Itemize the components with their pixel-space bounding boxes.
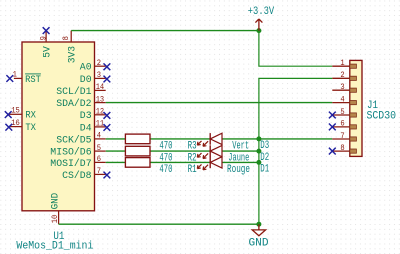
ground symbol GND	[249, 224, 269, 249]
svg-text:Rouge: Rouge	[227, 164, 250, 176]
J1 pin 4	[332, 94, 356, 104]
J1 pin 6	[332, 119, 356, 129]
resistor R3 470	[125, 134, 196, 152]
no-connect X on J1 pin 8	[329, 148, 336, 155]
no-connect X on J1 pin 5	[329, 112, 336, 119]
svg-text:R1: R1	[188, 164, 197, 176]
svg-text:10: 10	[50, 215, 60, 224]
svg-text:3V3: 3V3	[68, 46, 79, 63]
wire: U1 GND pin 10 to GND junction	[59, 223, 259, 225]
svg-text:+3.3V: +3.3V	[248, 6, 275, 18]
U1 pin 4 (SCK/D5)	[56, 131, 106, 147]
LED D1 (Rouge)	[197, 157, 269, 176]
wire: R3 to LED D3	[150, 138, 210, 140]
svg-text:8: 8	[61, 36, 71, 40]
svg-text:A0: A0	[80, 63, 92, 74]
svg-text:470: 470	[159, 164, 172, 176]
no-connect X on U1 pin 11	[104, 124, 111, 131]
svg-text:5: 5	[340, 107, 344, 117]
U1 pin 3 (D0)	[80, 70, 106, 86]
svg-text:11: 11	[96, 119, 105, 129]
junction at GND node	[256, 222, 261, 227]
svg-text:16: 16	[11, 118, 20, 128]
no-connect X on U1 pin 2	[104, 63, 111, 70]
svg-text:7: 7	[97, 166, 101, 176]
U1 pin 2 (A0)	[80, 58, 106, 74]
resistor R1 470	[125, 158, 196, 176]
wire: U1 MISO/D6 pin 5 to R2	[106, 150, 126, 152]
svg-text:D2: D2	[260, 152, 269, 164]
U1 pin 13 (SDA/D2)	[56, 94, 106, 110]
no-connect X on U1 pin 1	[6, 75, 13, 82]
U1 pin 15 (RX)	[9, 106, 36, 122]
U1 pin 7 (CS/D8)	[62, 166, 106, 182]
svg-text:8: 8	[340, 143, 344, 153]
wire: R1 to LED D1	[150, 161, 210, 163]
power symbol +3.3V	[248, 6, 275, 31]
svg-text:6: 6	[340, 119, 344, 129]
wire: U1 SDA/D2 pin 13 to J1 pin 4	[106, 102, 333, 104]
svg-text:3: 3	[340, 82, 344, 92]
svg-text:R3: R3	[188, 140, 197, 152]
svg-text:MOSI/D7: MOSI/D7	[50, 158, 91, 170]
svg-text:D4: D4	[80, 123, 92, 134]
J1 pin 7	[332, 131, 356, 141]
svg-text:RX: RX	[25, 111, 36, 122]
wire: LED D2 to rail junction	[222, 150, 259, 152]
resistor R2 470	[125, 146, 196, 164]
svg-text:6: 6	[97, 154, 101, 164]
no-connect X on U1 pin 3	[104, 76, 111, 83]
svg-text:4: 4	[97, 131, 101, 141]
svg-text:SCL/D1: SCL/D1	[56, 86, 91, 98]
LED D2 (Jaune)	[197, 145, 269, 164]
no-connect X on J1 pin 6	[329, 124, 336, 131]
junction at +3.3V node	[256, 28, 261, 33]
svg-text:2: 2	[97, 58, 101, 68]
svg-text:GND: GND	[51, 193, 62, 210]
no-connect X on U1 pin 12	[104, 112, 111, 119]
U1 pin 6 (MOSI/D7)	[50, 154, 105, 170]
svg-text:MISO/D6: MISO/D6	[50, 147, 91, 159]
wire: U1 3V3 pin 8 to +3.3V junction	[71, 30, 259, 32]
svg-text:SDA/D2: SDA/D2	[56, 98, 91, 110]
J1 pin 1	[332, 58, 356, 68]
wire: +3.3V rail down to J1 pin 1	[259, 31, 332, 67]
svg-text:D1: D1	[260, 163, 269, 175]
svg-text:15: 15	[11, 106, 20, 116]
no-connect X on U1 pin 16	[5, 124, 12, 131]
svg-text:R2: R2	[188, 153, 197, 165]
svg-text:4: 4	[340, 94, 344, 104]
svg-text:12: 12	[96, 107, 105, 117]
IC U1 WeMos_D1_mini body	[22, 42, 95, 211]
J1 pin 8	[332, 143, 356, 153]
U1 pin 14 (SCL/D1)	[56, 82, 106, 98]
svg-text:GND: GND	[249, 238, 269, 250]
U1 pin 9 (5V)	[38, 31, 53, 58]
U1 pin 5 (MISO/D6)	[50, 143, 105, 159]
svg-text:14: 14	[96, 82, 105, 92]
U1 pin 8 (3V3)	[61, 31, 79, 64]
svg-text:Jaune: Jaune	[228, 153, 249, 165]
svg-text:3: 3	[97, 70, 101, 80]
svg-text:RST: RST	[25, 75, 41, 86]
svg-text:9: 9	[38, 36, 48, 40]
svg-text:1: 1	[13, 70, 17, 80]
no-connect X on U1 pin 15	[5, 111, 12, 118]
svg-text:7: 7	[340, 131, 344, 141]
junction at LED D1 row	[256, 160, 261, 165]
wire: LED D1 to rail junction	[222, 161, 259, 163]
svg-text:SCD30: SCD30	[367, 110, 397, 122]
junction at LED D2 row	[256, 149, 261, 154]
wire: U1 SCK/D5 pin 4 to R3	[106, 138, 126, 140]
svg-text:1: 1	[340, 58, 344, 68]
svg-text:D3: D3	[80, 111, 92, 122]
U1 pin 16 (TX)	[10, 118, 37, 134]
svg-text:470: 470	[159, 140, 172, 152]
wire: R2 to LED D2	[150, 150, 210, 152]
svg-text:Vert: Vert	[232, 140, 249, 152]
wire: J1 pin 2 to GND rail (vertical)	[259, 78, 332, 224]
svg-text:D0: D0	[80, 75, 92, 86]
U1 pin 1 (RST)	[13, 70, 41, 86]
U1 pin 11 (D4)	[80, 119, 106, 135]
U1 pin 12 (D3)	[80, 107, 106, 123]
svg-text:5V: 5V	[43, 46, 54, 58]
svg-text:SCK/D5: SCK/D5	[56, 134, 91, 146]
svg-text:WeMos_D1_mini: WeMos_D1_mini	[16, 241, 93, 253]
J1 pin 3	[332, 82, 356, 92]
wire: LED D3 to rail junction and on to J1 pin 7	[222, 138, 332, 140]
svg-text:2: 2	[340, 70, 344, 80]
connector J1 body (SCD30)	[350, 60, 362, 156]
wire: U1 MOSI/D7 pin 6 to R1	[106, 161, 126, 163]
no-connect X on U1 pin 7	[104, 172, 111, 179]
J1 pin 5	[332, 107, 356, 117]
J1 pin 2	[332, 70, 356, 80]
svg-text:5: 5	[97, 143, 101, 153]
svg-text:470: 470	[159, 153, 172, 165]
svg-text:D3: D3	[260, 140, 269, 152]
no-connect X on U1 pin 9	[43, 27, 50, 34]
svg-text:CS/D8: CS/D8	[62, 170, 92, 182]
LED D3 (Vert)	[197, 133, 269, 152]
svg-text:13: 13	[96, 94, 105, 104]
U1 pin 10 (GND)	[50, 193, 62, 224]
svg-text:TX: TX	[25, 123, 36, 134]
junction at LED D3 row	[256, 136, 261, 141]
